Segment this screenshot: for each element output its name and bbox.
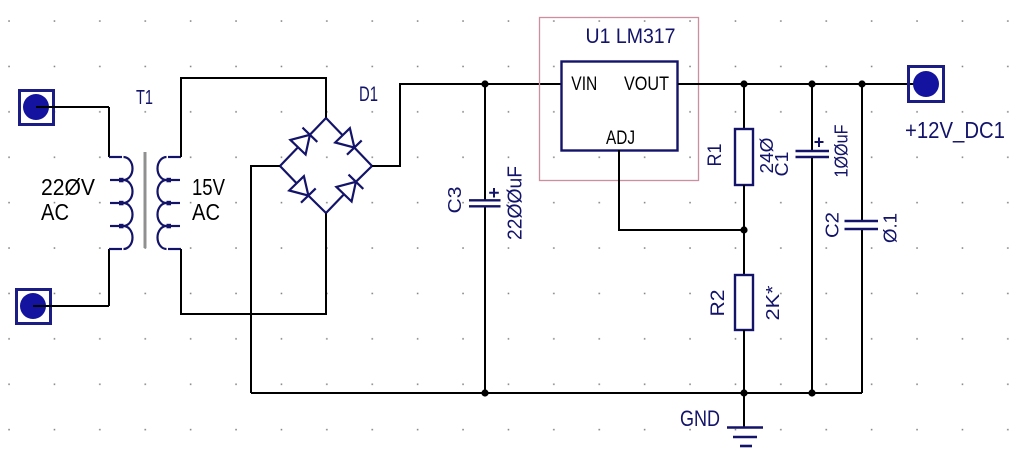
svg-text:GND: GND — [680, 406, 720, 431]
transformer T1 core — [144, 152, 147, 248]
svg-text:2K*: 2K* — [762, 286, 783, 321]
junction dot C1 top — [808, 80, 815, 87]
svg-text:R1: R1 — [705, 144, 726, 167]
wire ADJ — [619, 150, 744, 230]
resistor R1 — [735, 84, 753, 275]
svg-text:ADJ: ADJ — [606, 128, 635, 149]
svg-text:Ø.1: Ø.1 — [880, 213, 901, 243]
transformer T1 secondary winding — [158, 157, 182, 249]
wire bridge plus to VIN — [372, 84, 562, 166]
svg-text:C1: C1 — [771, 152, 792, 177]
capacitor C2 — [845, 84, 879, 393]
capacitor C1 — [796, 84, 830, 393]
wire — [108, 107, 110, 157]
capacitor C3 — [469, 84, 501, 393]
svg-text:15V: 15V — [192, 174, 225, 200]
diode D1d bottom-right — [326, 194, 344, 213]
connector +12V DC output — [909, 67, 944, 102]
wire — [36, 106, 109, 108]
wire bridge minus to bottom rail — [251, 166, 280, 393]
wire — [33, 305, 109, 307]
junction dot C2 top — [858, 80, 865, 87]
wire secondary bottom to bridge — [181, 213, 326, 314]
wire secondary top to bridge — [181, 78, 326, 157]
junction dot R1 top — [740, 80, 747, 87]
wire bottom rail — [251, 392, 862, 394]
svg-text:C2: C2 — [822, 212, 843, 238]
wire VOUT rail — [678, 83, 925, 85]
transformer T1 primary winding — [109, 157, 133, 249]
junction dot C3 bottom — [481, 389, 488, 396]
svg-text:22ØØuF: 22ØØuF — [505, 166, 527, 240]
svg-text:C3: C3 — [444, 187, 465, 214]
junction dot VIN node — [481, 80, 488, 87]
ground — [727, 393, 763, 446]
diode D1a top-left — [280, 147, 298, 166]
bridge rectifier D1 — [280, 118, 372, 213]
svg-text:1ØØuF: 1ØØuF — [831, 125, 852, 178]
svg-text:T1: T1 — [136, 87, 153, 109]
op-amp U1 regulator box — [540, 18, 699, 181]
svg-text:AC: AC — [41, 199, 69, 225]
svg-text:+12V_DC1: +12V_DC1 — [905, 117, 1005, 143]
svg-text:VOUT: VOUT — [624, 74, 669, 95]
diode D1b top-right — [326, 118, 343, 135]
svg-text:U1 LM317: U1 LM317 — [586, 25, 676, 48]
junction dot C1 bottom — [808, 389, 815, 396]
svg-text:AC: AC — [192, 199, 220, 225]
svg-text:D1: D1 — [359, 83, 378, 106]
svg-text:22ØV: 22ØV — [41, 174, 95, 200]
junction dot R2 bottom — [740, 389, 747, 396]
svg-text:R2: R2 — [708, 290, 729, 317]
wire — [108, 249, 110, 306]
junction dot ADJ node — [740, 226, 747, 233]
svg-text:VIN: VIN — [571, 74, 597, 95]
connector J1 (AC input top) — [20, 91, 54, 125]
connector J2 (AC input bottom) — [17, 290, 51, 324]
diode D1c bottom-left — [280, 166, 297, 183]
resistor R2 — [735, 275, 753, 393]
